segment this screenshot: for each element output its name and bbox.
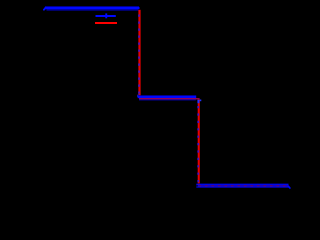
jump 1 red vertical (138, 10, 140, 98)
jump 2 red vertical (198, 100, 200, 185)
jump 2 blue top segment (197, 100, 199, 103)
step 2 dark blue lower row (139, 99, 196, 100)
step 3 bottom horizontal blue segment (196, 183, 288, 185)
step 1 top horizontal blue segment (45, 6, 140, 10)
step 1 start hook (44, 8, 46, 10)
step 3 end hook (288, 186, 290, 188)
legend red sample (95, 22, 117, 24)
jump 2 top blue nub (199, 100, 201, 102)
legend blue dashed sample with point marker (96, 13, 116, 18)
jump 1 corner blue blob (137, 95, 139, 98)
step 2 middle horizontal blue segment (138, 95, 196, 98)
jump 1 blue dashes over red (138, 15, 140, 97)
jump 2 blue dashes over red (197, 106, 199, 184)
step 2 red row under blue (139, 98, 200, 99)
step 3 lower bright blue row (196, 186, 288, 187)
step 3 red core row with blue dashes (198, 185, 288, 186)
